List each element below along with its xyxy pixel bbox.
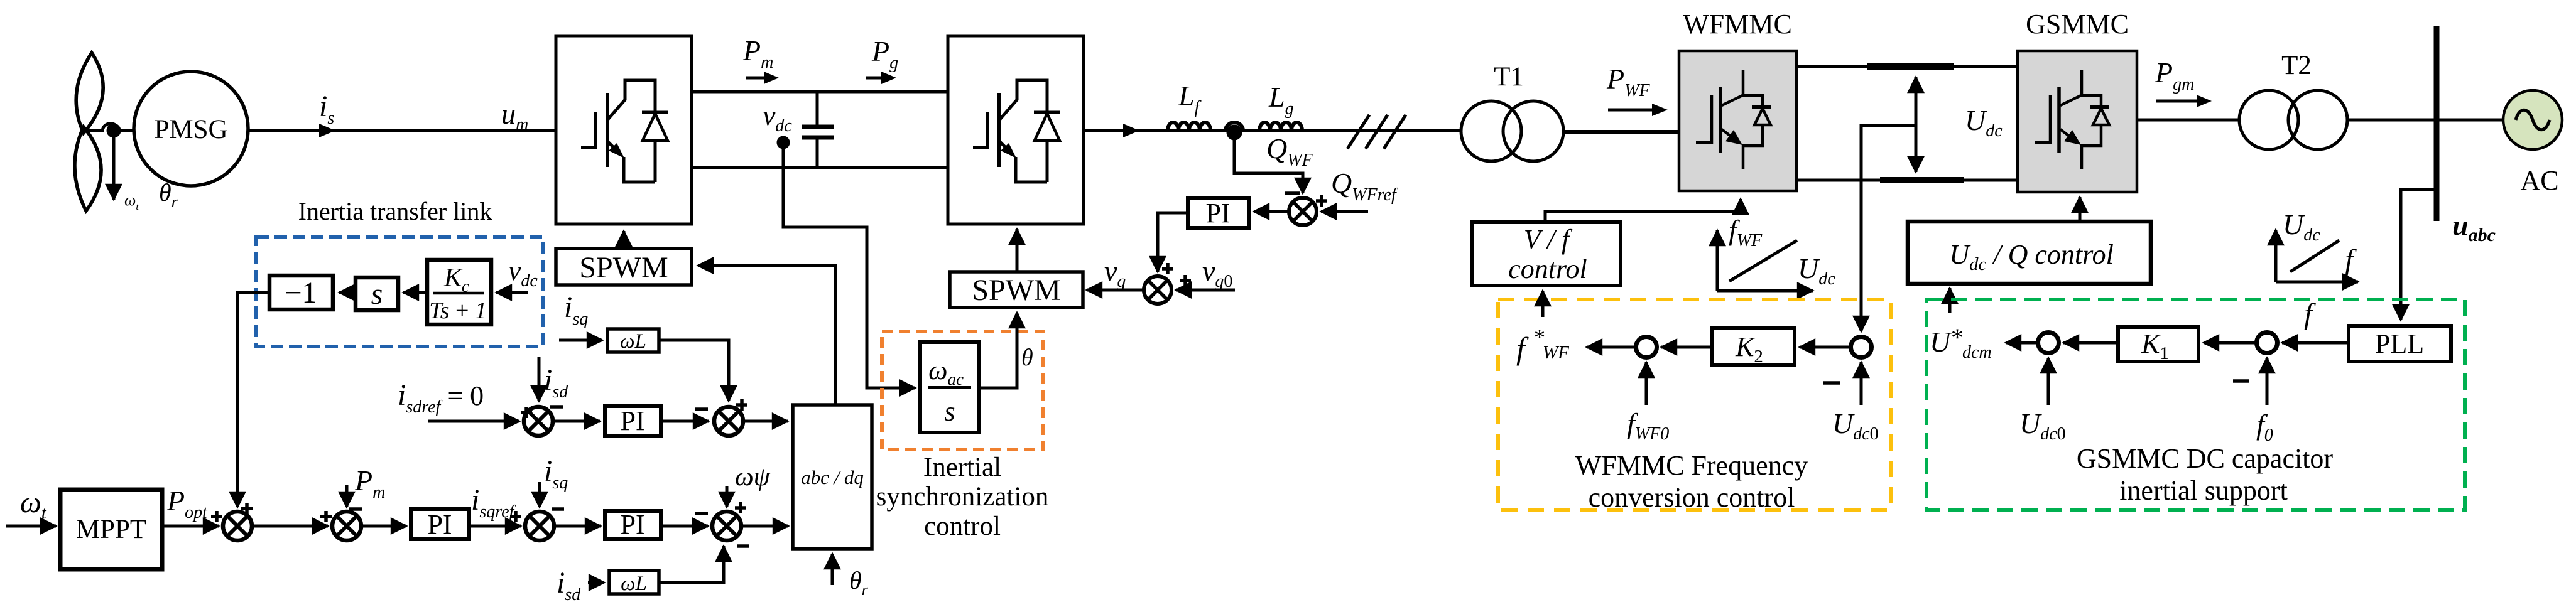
wire abc/dq to SPWM1 <box>698 266 835 405</box>
sum circle green left <box>2038 333 2059 353</box>
block s <box>356 277 398 310</box>
svg-text:vg0: vg0 <box>1202 255 1232 291</box>
arrow sum4 to abc/dq <box>741 525 788 528</box>
i_sdref wire to sum5 <box>428 420 519 423</box>
v_g sum circle wire from PI-d <box>1158 213 1188 272</box>
svg-text:T1: T1 <box>1494 62 1524 92</box>
converter2 emitter path <box>1016 157 1047 182</box>
svg-text:QWF: QWF <box>1266 132 1313 170</box>
block abc/dq <box>793 405 872 549</box>
arrow v_g sum to SPWM2 <box>1087 289 1143 292</box>
block omega_ac/s <box>920 342 979 432</box>
minus sum3 <box>552 507 564 511</box>
wire V/f control to WFMMC <box>1545 199 1741 223</box>
arrowhead after converter2 <box>1123 124 1139 137</box>
arrow sumG2 to K1 <box>2204 341 2257 345</box>
arrow sum6 to abc/dq <box>744 420 788 423</box>
svg-text:SPWM: SPWM <box>579 251 668 284</box>
converter2 box <box>948 36 1084 224</box>
svg-text:θ: θ <box>1021 345 1033 371</box>
transformer T1 <box>1461 101 1521 161</box>
theta wire omega_ac/s to SPWM2 <box>979 313 1017 388</box>
i_sq arrow into omegaL1 <box>559 339 602 342</box>
AC source circle <box>2503 90 2562 149</box>
svg-text:Popt: Popt <box>166 485 208 522</box>
svg-text:*: * <box>1951 323 1964 352</box>
summing junction sum4 <box>712 512 741 540</box>
svg-text:isq: isq <box>564 291 588 329</box>
block K2 <box>1712 328 1795 365</box>
f_WF ramp horizontal axis <box>1717 289 1813 293</box>
arrow sum1 to sum2 <box>252 525 328 528</box>
omega*psi input arrow to sum4 <box>726 486 729 507</box>
svg-text:synchronization: synchronization <box>876 482 1049 512</box>
plus v_g top <box>1162 263 1173 274</box>
i_sd arrow into omegaL2 <box>588 581 604 584</box>
svg-text:U: U <box>1930 326 1952 358</box>
svg-text:isdref = 0: isdref = 0 <box>398 379 484 417</box>
svg-text:PI: PI <box>620 406 644 436</box>
arrow K2 to sumL <box>1661 346 1712 349</box>
svg-text:Pg: Pg <box>871 35 898 73</box>
dc bus bottom thick bar <box>1880 177 1964 183</box>
wire omegaL2 to sum4 bottom <box>659 546 724 583</box>
svg-text:Inertial: Inertial <box>923 453 1001 482</box>
arrow MPPT to sum1 <box>161 525 219 528</box>
summing junction sum2 <box>332 512 361 540</box>
arrow omega_t into MPPT <box>6 525 56 528</box>
svg-text:vdc: vdc <box>763 99 792 136</box>
svg-text:V / f: V / f <box>1524 224 1573 255</box>
svg-text:ωψ: ωψ <box>735 463 771 492</box>
svg-text:Inertia transfer link: Inertia transfer link <box>298 197 492 225</box>
svg-text:θr: θr <box>849 566 869 599</box>
arrow v_dc into Kc block <box>496 291 528 294</box>
U_dc tap wire down to frequency control <box>1861 126 1916 331</box>
converter2 diode triangle <box>1035 114 1060 141</box>
P_gm arrow <box>2156 100 2200 103</box>
fraction bar omega_ac/s <box>928 386 971 389</box>
svg-text:ωt: ωt <box>20 486 47 523</box>
svg-text:PI: PI <box>620 509 644 540</box>
converter2 IGBT bar <box>997 93 1001 167</box>
capacitor plate bottom <box>802 136 834 140</box>
summing junction sum3 <box>525 512 554 540</box>
converter1 IGBT emitter arrow <box>608 142 618 152</box>
f_WF ramp diagonal <box>1729 240 1797 281</box>
i_sq input arrow to sum3 <box>538 482 541 507</box>
plus sum1 top <box>241 503 253 514</box>
arrow sum2 to PI-a <box>361 525 406 528</box>
theta_r arrow into abc/dq <box>831 554 834 585</box>
V/f control box <box>1472 222 1621 286</box>
arrow sum5 to PI-c <box>553 420 600 423</box>
green dashed box GSMMC DC capacitor inertial support <box>1927 299 2465 510</box>
plus Q sum <box>1316 195 1327 207</box>
arrow K1 to sumG1 <box>2063 341 2118 345</box>
converter2 IGBT gate <box>973 112 987 148</box>
svg-text:PI: PI <box>427 509 452 540</box>
svg-text:fWF0: fWF0 <box>1627 407 1669 444</box>
arrow Qsum to PI-d <box>1254 210 1290 213</box>
orange dashed box inertial synchronization <box>882 331 1043 449</box>
converter2 IGBT collector path <box>1000 80 1047 119</box>
svg-text:ωL: ωL <box>621 572 647 595</box>
converter1 IGBT collector path <box>608 80 655 119</box>
svg-text:PI: PI <box>1205 198 1230 228</box>
U_dc/f ramp vertical axis <box>2274 230 2278 282</box>
WFMMC box <box>1679 51 1796 191</box>
converter1 diode triangle <box>643 114 668 141</box>
wire T1 to WFMMC <box>1563 130 1679 134</box>
plus sum3 left <box>510 511 521 522</box>
svg-text:f: f <box>2304 298 2316 331</box>
node dot Q_WF tap <box>1228 126 1241 139</box>
svg-text:s: s <box>371 277 383 311</box>
GSMMC IGBT icon <box>2035 70 2109 169</box>
arrow into U_dc/Q control <box>1948 288 1952 313</box>
svg-text:WFMMC Frequency: WFMMC Frequency <box>1575 450 1808 481</box>
minus sum4 bottom <box>737 544 749 548</box>
AC sine wave <box>2516 110 2550 130</box>
dc bus top thick bar <box>1867 63 1954 70</box>
SPWM2 box <box>950 272 1083 308</box>
svg-text:T2: T2 <box>2281 51 2312 80</box>
block K1 <box>2118 327 2198 362</box>
dc top rail <box>692 90 948 94</box>
svg-text:abc / dq: abc / dq <box>801 466 864 488</box>
sum circle yellow left <box>1636 337 1657 358</box>
block PI-b <box>605 511 661 539</box>
svg-text:GSMMC: GSMMC <box>2026 9 2129 40</box>
fraction bar Kc block <box>433 292 484 295</box>
svg-text:Udc: Udc <box>1798 252 1835 289</box>
plus sum6 top <box>736 399 747 411</box>
minus sum6 left <box>695 407 708 411</box>
svg-text:PLL: PLL <box>2375 328 2424 359</box>
arrow PLL to sumG2 <box>2282 341 2349 345</box>
svg-text:Pm: Pm <box>742 35 773 72</box>
U_dc double arrow <box>1915 77 1918 172</box>
plus sum5 left <box>521 407 532 418</box>
svg-text:ωL: ωL <box>620 330 646 353</box>
svg-text:vdc: vdc <box>508 254 538 291</box>
P_g arrow <box>866 77 886 80</box>
minus sum4 left <box>695 512 708 515</box>
U_dc/f ramp diagonal <box>2290 240 2339 272</box>
svg-text:Lf: Lf <box>1178 80 1202 117</box>
svg-text:MPPT: MPPT <box>76 515 146 544</box>
svg-text:conversion control: conversion control <box>1589 482 1795 513</box>
svg-text:isq: isq <box>544 454 568 493</box>
arrow SPWM2 to converter2 <box>1016 229 1019 272</box>
svg-text:Udc0: Udc0 <box>2019 407 2066 444</box>
converter2 diode leg <box>1046 141 1049 182</box>
plus sum2 left <box>320 511 332 522</box>
capacitor C leg top <box>816 92 819 127</box>
arrow sum3 to PI-b <box>554 525 601 528</box>
U_dc0 input arrow (green) <box>2047 358 2050 405</box>
generator PMSG <box>134 72 248 186</box>
U_dc/f ramp horizontal axis <box>2276 281 2358 284</box>
wind turbine blade upper <box>76 53 103 133</box>
SPWM1 box <box>556 249 692 285</box>
svg-text:Lg: Lg <box>1268 81 1294 119</box>
f_0 input arrow <box>2266 358 2269 405</box>
block PI-d <box>1188 198 1249 228</box>
summing junction sum5 <box>524 407 553 436</box>
blue dashed box Inertia transfer link <box>256 237 543 346</box>
svg-text:Pgm: Pgm <box>2155 56 2194 94</box>
f_WF0 input arrow <box>1645 362 1648 405</box>
svg-text:Pm: Pm <box>354 465 385 502</box>
minus Q sum <box>1285 191 1300 195</box>
turbine speed arrow <box>112 134 116 200</box>
block PI-a <box>411 509 469 539</box>
arrow into V/f control <box>1541 291 1545 317</box>
wind turbine blade lower <box>75 127 101 211</box>
arrow PI-c to sum6 <box>661 420 709 423</box>
svg-text:Ts + 1: Ts + 1 <box>429 298 487 324</box>
wire PMSG to converter1 <box>248 129 556 132</box>
summing junction Q_WF <box>1289 198 1317 225</box>
svg-text:Udc: Udc <box>1965 104 2003 141</box>
arrow Kc to s <box>403 291 427 294</box>
yellow dashed box WFMMC frequency conversion control <box>1498 299 1891 510</box>
v_dc node dot <box>778 137 788 148</box>
WFMMC IGBT icon <box>1696 70 1771 169</box>
wire GSMMC to T2 <box>2137 119 2239 122</box>
converter1 IGBT bar <box>606 93 609 167</box>
svg-text:WF: WF <box>1543 343 1569 363</box>
svg-text:dcm: dcm <box>1962 343 1992 362</box>
sum circle yellow right <box>1851 337 1872 358</box>
converter1 IGBT gate <box>581 112 595 148</box>
U_dc/Q control box <box>1908 222 2151 284</box>
inductor L_f <box>1168 122 1210 131</box>
summing junction sum6 <box>714 407 743 436</box>
svg-text:−1: −1 <box>285 276 317 309</box>
converter1 diode cathode bar <box>642 111 668 114</box>
plus and minus signs <box>211 193 2249 546</box>
converter2 IGBT emitter arrow <box>1000 142 1010 152</box>
i_sd input arrow to sum5 <box>538 357 541 401</box>
svg-text:WFMMC: WFMMC <box>1683 9 1792 40</box>
MPPT box <box>60 490 162 569</box>
three-phase slashes <box>1347 115 1406 149</box>
svg-text:f0: f0 <box>2256 409 2273 445</box>
converter1 box <box>556 36 692 224</box>
svg-text:control: control <box>924 512 1001 541</box>
svg-text:uabc: uabc <box>2452 209 2496 245</box>
capacitor plate top <box>802 125 834 129</box>
svg-text:f: f <box>1516 331 1529 366</box>
block -1 <box>269 276 333 309</box>
GSMMC box <box>2018 51 2137 192</box>
wire T2 to AC bus <box>2347 119 2503 122</box>
svg-text:f: f <box>2345 244 2357 277</box>
summing junction v_g <box>1144 276 1171 304</box>
summing junction sum1 <box>223 512 252 540</box>
svg-text:control: control <box>1508 254 1587 284</box>
P_m arrow <box>746 77 768 80</box>
minus green sum <box>2233 379 2249 383</box>
arrow sumG1 to U*_dcm <box>2006 341 2038 345</box>
turbine hub dot <box>108 125 119 136</box>
inductor L_g <box>1259 122 1302 131</box>
v_g0 input arrow <box>1176 289 1235 292</box>
f_WF ramp vertical axis <box>1716 230 1719 291</box>
transformer T2 <box>2239 90 2298 149</box>
converter2 diode cathode bar <box>1034 111 1060 114</box>
svg-text:Udc0: Udc0 <box>1832 407 1879 444</box>
svg-text:PMSG: PMSG <box>154 115 227 144</box>
svg-text:GSMMC DC capacitor: GSMMC DC capacitor <box>2077 443 2334 474</box>
minus sum2 <box>349 507 362 511</box>
svg-text:fWF: fWF <box>1729 214 1763 250</box>
plus v_g right <box>1180 275 1191 286</box>
svg-text:isd: isd <box>544 363 568 402</box>
svg-text:Udc: Udc <box>2283 208 2320 245</box>
block omegaL2 <box>609 571 659 594</box>
arrow SPWM1 to converter1 <box>622 231 626 249</box>
arrow PI-a to sum3 <box>469 525 521 528</box>
P_WF arrow <box>1608 109 1655 112</box>
svg-text:s: s <box>944 396 955 427</box>
dc bus bottom rail (MMC link) <box>1796 179 2018 182</box>
svg-text:SPWM: SPWM <box>972 274 1060 307</box>
svg-text:inertial support: inertial support <box>2119 475 2288 506</box>
converter1 emitter path <box>624 157 655 182</box>
converter1 diode leg <box>654 141 657 182</box>
P_m input arrow <box>345 485 349 507</box>
plus sum4 top <box>735 502 746 513</box>
svg-text:um: um <box>501 98 528 134</box>
svg-text:PWF: PWF <box>1606 63 1650 100</box>
u_abc tap wire from bus to PLL <box>2401 190 2437 320</box>
v_dc sense wire to omega_ac block <box>783 142 915 388</box>
capacitor leg bottom <box>816 137 819 168</box>
sum circle green right <box>2257 333 2278 353</box>
arrow sumR to K2 <box>1800 346 1851 349</box>
block PI-c <box>605 406 661 436</box>
svg-text:isd: isd <box>557 566 581 604</box>
arrow sumL to f*_WF <box>1587 346 1636 349</box>
wire converter2 to T1 <box>1084 129 1462 132</box>
svg-text:is: is <box>319 90 334 128</box>
svg-text:isqref: isqref <box>471 483 516 522</box>
arrow U_dc/Q control to GSMMC <box>2079 197 2082 222</box>
plus sum1 left <box>211 511 222 522</box>
arrowhead i_s <box>319 124 335 137</box>
minus sum5 <box>550 405 563 409</box>
turbine shaft wire <box>84 124 134 131</box>
AC bus bar <box>2434 26 2440 221</box>
svg-text:QWFref: QWFref <box>1331 167 1398 205</box>
svg-text:AC: AC <box>2520 165 2558 196</box>
dc bus top rail (MMC link) <box>1796 65 2018 68</box>
block PLL <box>2349 326 2451 362</box>
block omegaL1 <box>607 329 659 352</box>
wire omegaL1 to sum6 top <box>659 340 729 401</box>
svg-text:vg: vg <box>1104 255 1126 291</box>
U_dc0 input arrow (yellow) <box>1860 362 1863 405</box>
dc bottom rail <box>692 166 948 169</box>
minus yellow sum <box>1823 381 1840 385</box>
arrow s to -1 <box>339 291 356 294</box>
block Kc/(Ts+1) <box>427 260 491 325</box>
Q_WFref input arrow <box>1321 210 1368 213</box>
wire node to Qsum <box>1234 131 1303 193</box>
svg-text:ωt: ωt <box>124 191 139 212</box>
wire -1 to sum1 <box>237 293 269 507</box>
arrow PI-b to sum4 <box>661 525 708 528</box>
